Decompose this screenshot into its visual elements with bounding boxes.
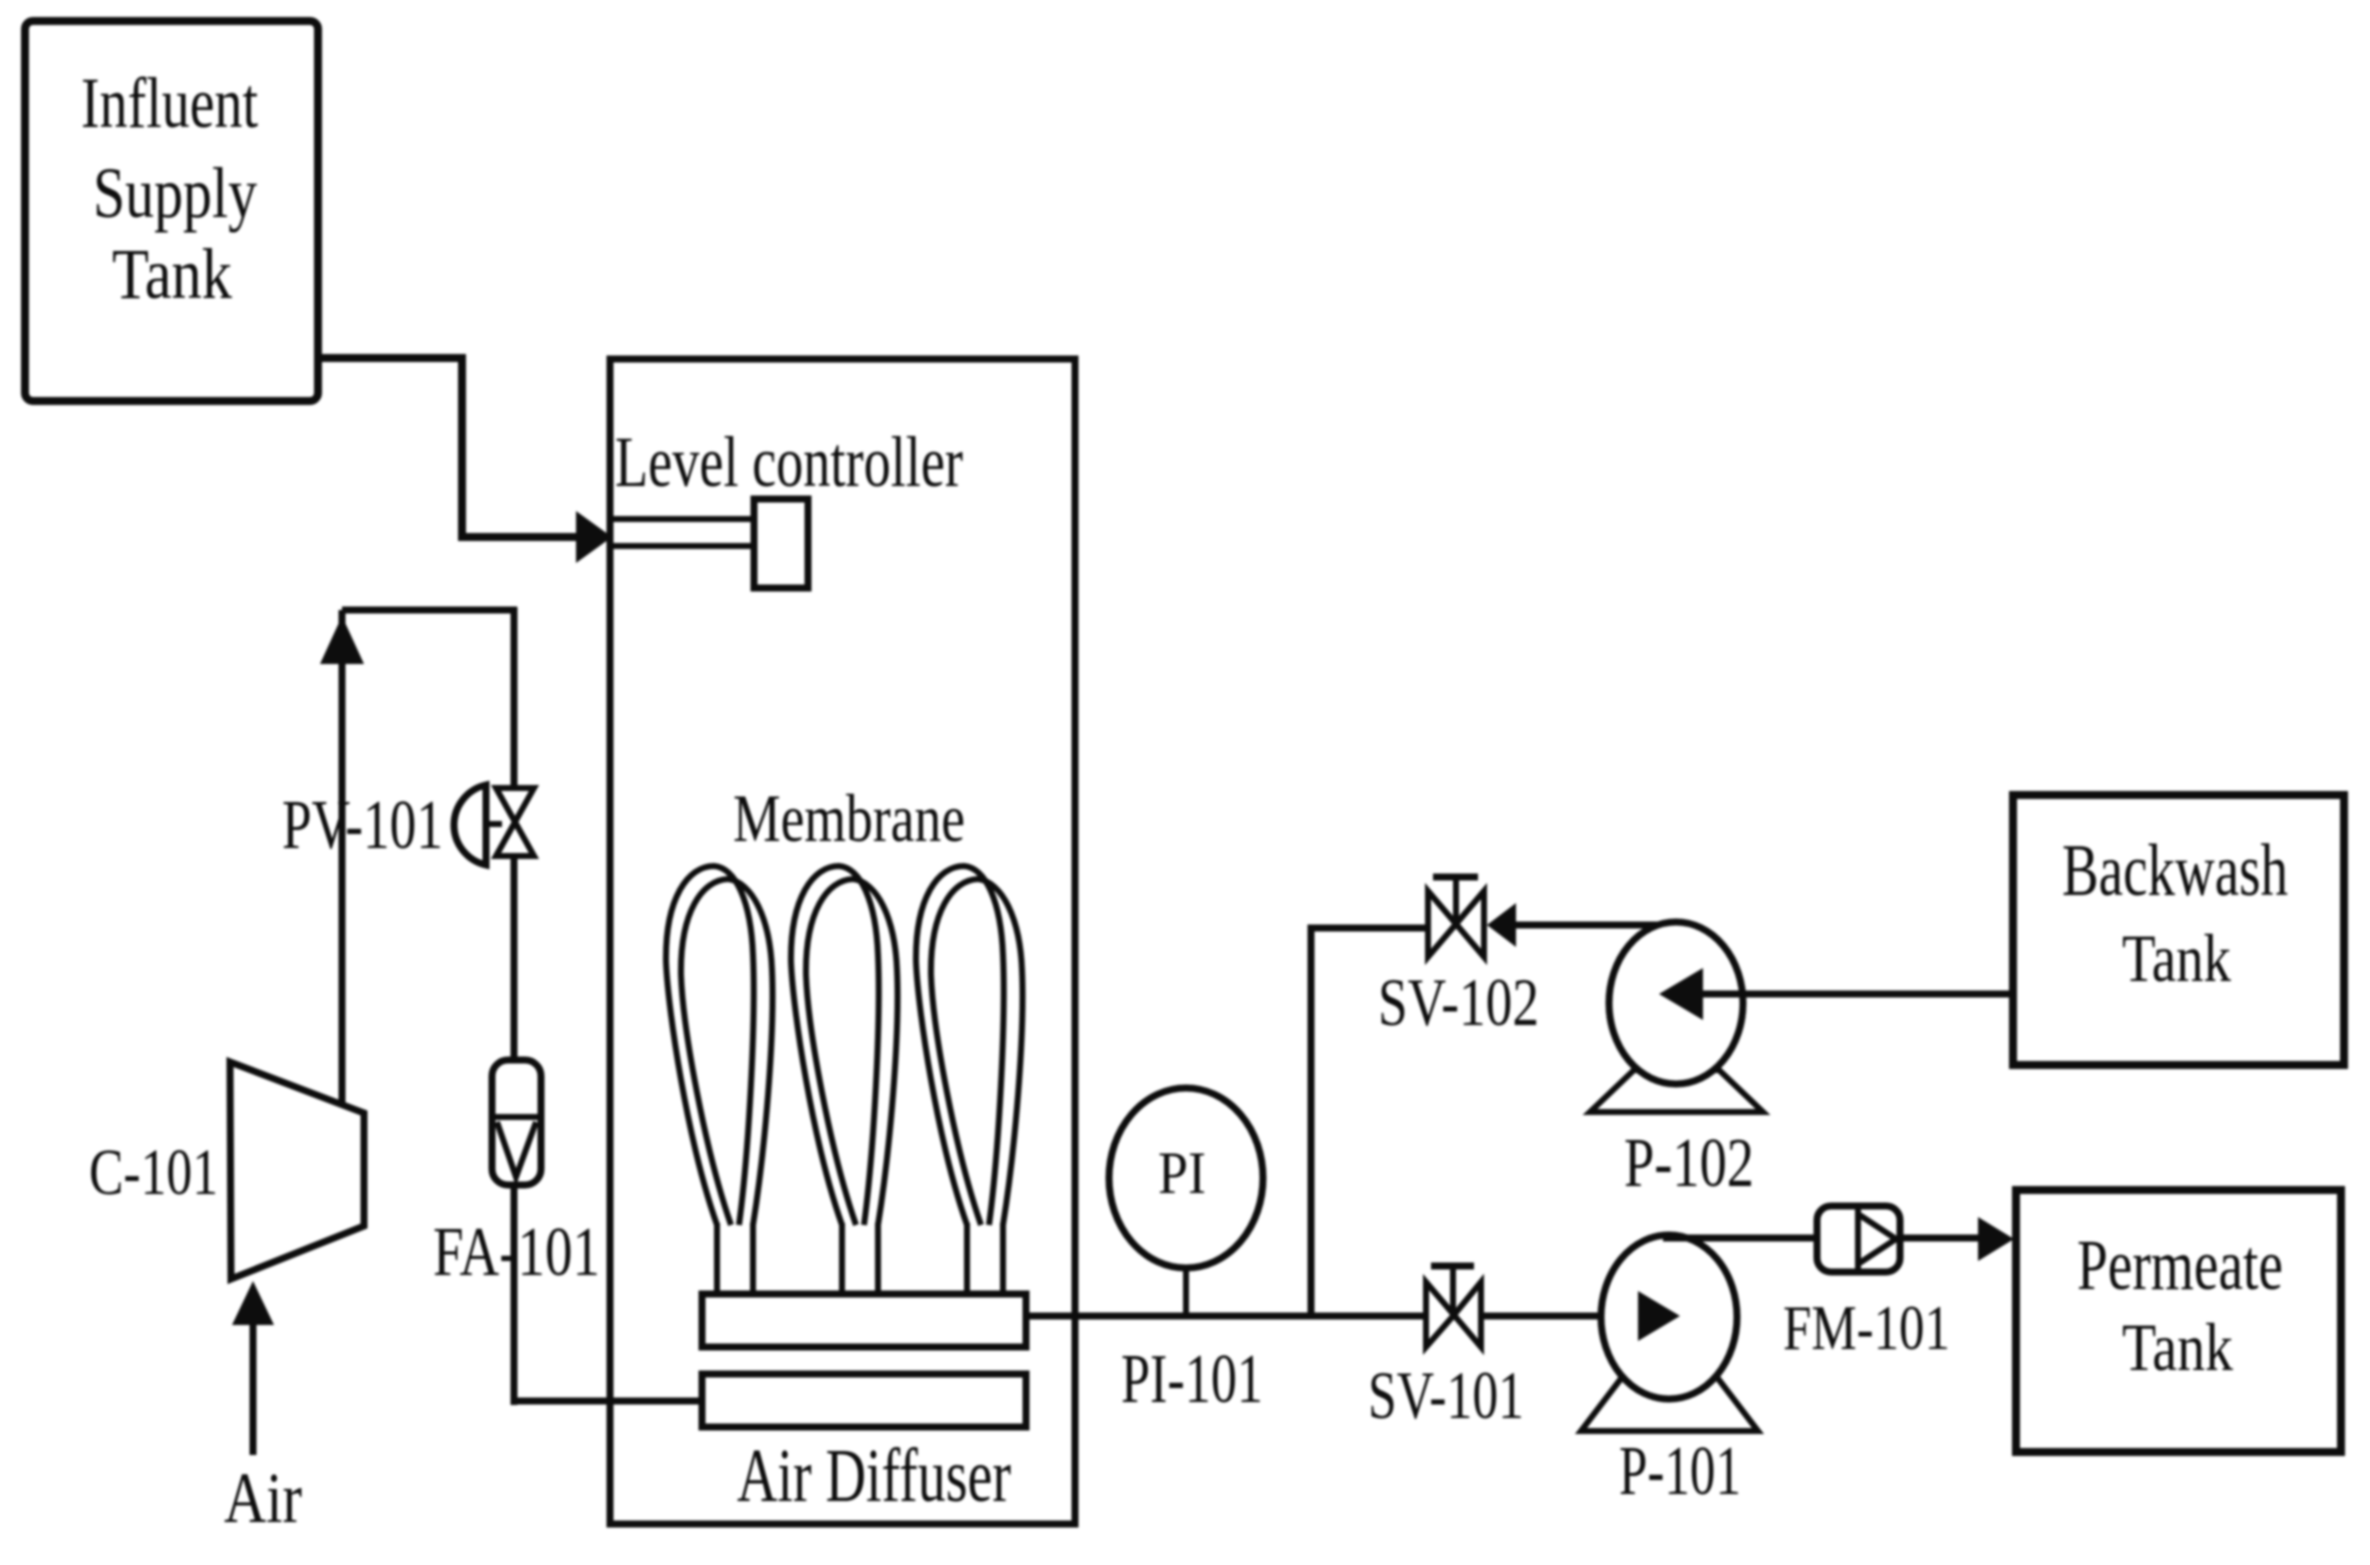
svg-text:Level controller: Level controller — [615, 422, 963, 502]
svg-text:Air: Air — [224, 1458, 302, 1538]
svg-text:PV-101: PV-101 — [282, 787, 443, 864]
svg-text:Air Diffuser: Air Diffuser — [737, 1434, 1011, 1518]
svg-text:Supply: Supply — [93, 153, 257, 233]
svg-text:P-102: P-102 — [1624, 1125, 1754, 1202]
svg-text:SV-101: SV-101 — [1368, 1357, 1524, 1433]
svg-text:PI: PI — [1158, 1140, 1206, 1206]
svg-text:SV-102: SV-102 — [1378, 964, 1539, 1040]
svg-text:Membrane: Membrane — [733, 780, 965, 856]
svg-text:Influent: Influent — [81, 63, 258, 143]
svg-text:P-101: P-101 — [1619, 1433, 1741, 1510]
svg-text:Tank: Tank — [2122, 1309, 2233, 1385]
svg-text:Tank: Tank — [2122, 920, 2231, 996]
svg-text:Tank: Tank — [112, 234, 232, 314]
svg-text:FA-101: FA-101 — [433, 1214, 600, 1291]
svg-text:FM-101: FM-101 — [1783, 1292, 1950, 1363]
svg-text:PI-101: PI-101 — [1121, 1341, 1263, 1418]
svg-text:Permeate: Permeate — [2077, 1225, 2283, 1305]
svg-text:C-101: C-101 — [89, 1136, 218, 1209]
svg-text:Backwash: Backwash — [2062, 830, 2288, 912]
